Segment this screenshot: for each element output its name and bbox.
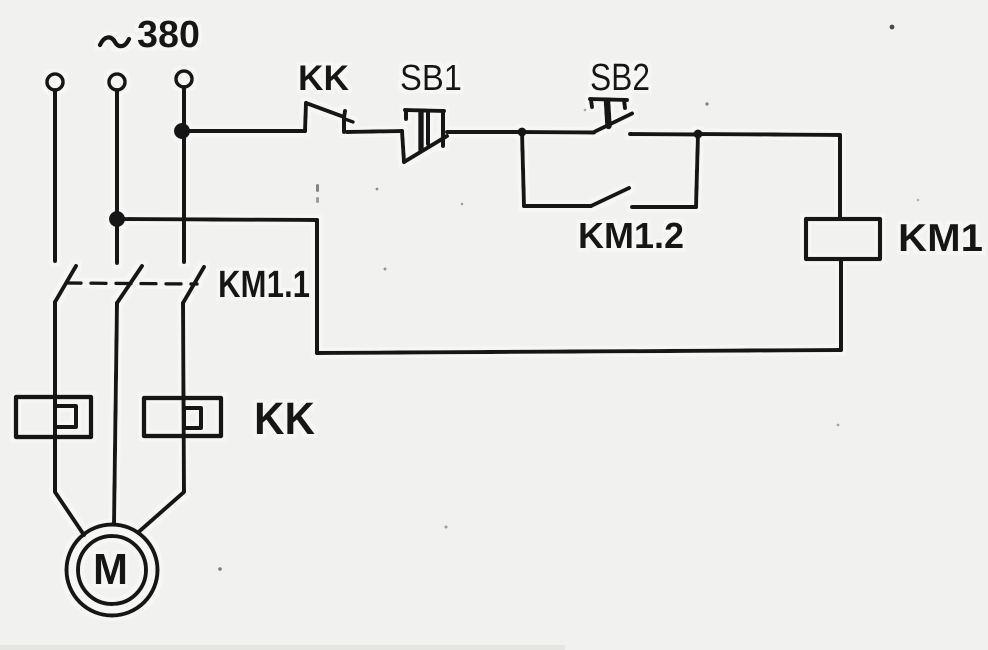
thermal contact KK (NC): [298, 59, 353, 132]
wire phase L1 upper: [53, 90, 57, 261]
motor M: [67, 525, 158, 616]
wire phase L2 lower: [114, 303, 117, 524]
terminal L2: [109, 74, 125, 90]
wire node A to SB2: [522, 130, 594, 135]
svg-text:KM1: KM1: [898, 217, 983, 260]
wire phase L3 lower: [138, 303, 184, 533]
wire coil bottom down: [839, 259, 843, 350]
wire phase L1 lower: [55, 302, 84, 535]
wire SB2 to node B: [630, 132, 698, 137]
node A junction: [518, 128, 527, 137]
wire control top from L3 to KK: [182, 129, 305, 133]
svg-text:KM1.2: KM1.2: [578, 215, 684, 256]
svg-text:KM1.1: KM1.1: [218, 264, 310, 306]
pushbutton SB1 (NC stop): [400, 57, 462, 162]
wire KK to SB1: [347, 131, 402, 132]
wire right vertical down to coil: [838, 135, 842, 219]
main contacts KM1.1: [55, 264, 310, 306]
wire left vertical of return: [315, 220, 319, 353]
node junction on L2: [109, 211, 125, 227]
svg-text:KK: KK: [254, 393, 315, 444]
svg-text:380: 380: [137, 14, 200, 56]
svg-text:SB1: SB1: [400, 57, 462, 98]
wire SB1 to node A: [447, 130, 522, 134]
terminal L3: [176, 71, 192, 87]
pushbutton SB2 (NO start): [590, 57, 650, 132]
contactor coil KM1: [806, 217, 983, 260]
terminal L1: [47, 74, 63, 90]
node junction on L3: [174, 123, 190, 139]
svg-text:KK: KK: [298, 59, 349, 98]
svg-text:SB2: SB2: [590, 57, 650, 99]
wire row from L2 junction: [117, 219, 317, 220]
wire phase L2 upper: [115, 90, 119, 263]
auxiliary contact KM1.2 branch: [522, 132, 698, 256]
wire bottom return: [317, 350, 841, 353]
node B junction: [694, 130, 703, 139]
label ~380: [100, 14, 200, 56]
wire node B to right corner: [698, 134, 840, 135]
wire phase L3 upper: [182, 87, 186, 262]
thermal element KK heater 1: [16, 397, 91, 437]
thermal element KK heater 2: [144, 398, 221, 436]
svg-text:M: M: [93, 545, 128, 594]
